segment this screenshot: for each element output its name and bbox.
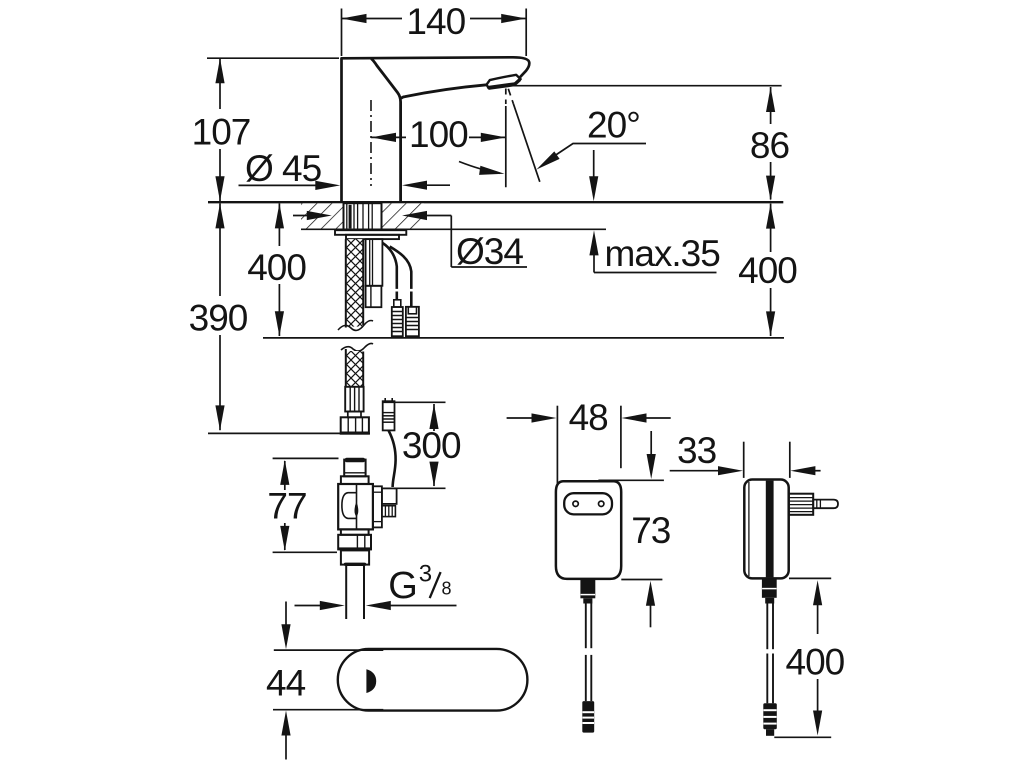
adapter front body: [556, 481, 621, 579]
20 degree slant line: [508, 89, 540, 182]
svg-text:73: 73: [631, 510, 670, 551]
dimension 400 right: [738, 204, 797, 337]
dimension 86: [750, 87, 789, 201]
faucet aerator spout tip: [487, 75, 521, 88]
sensor window mark: [366, 669, 376, 693]
G3/8 pipe tail: [346, 566, 364, 619]
mounting shank through deck: [344, 203, 382, 229]
valve bottom collar: [341, 529, 369, 534]
svg-text:44: 44: [266, 663, 306, 704]
300 cable to valve: [389, 431, 396, 487]
dimension G 3/8 thread: [295, 561, 457, 611]
20 degree angle annotation: [459, 105, 646, 175]
adapter euro socket face: [564, 493, 612, 514]
braided supply hose upper segment: [338, 239, 373, 330]
adapter front jack connector: [582, 701, 594, 733]
sensor cable A: [383, 243, 397, 300]
svg-text:33: 33: [677, 430, 716, 471]
cable A plug connector: [392, 300, 403, 336]
adapter side strain relief: [762, 578, 777, 603]
countertop line: [208, 201, 783, 203]
svg-text:Ø 45: Ø 45: [245, 148, 322, 189]
valve hex nut: [338, 535, 371, 550]
adapter side cable: [767, 604, 773, 704]
faucet body outline: [342, 57, 530, 202]
svg-text:107: 107: [192, 112, 251, 153]
valve inlet stub: [344, 458, 365, 477]
mounting flange washer: [335, 230, 406, 239]
dimension 300 cable length: [383, 402, 461, 488]
dimension 140 top width: [342, 1, 527, 56]
svg-text:300: 300: [402, 425, 461, 466]
svg-text:400: 400: [247, 247, 306, 288]
dimension 33 adapter depth: [670, 430, 821, 478]
dimension 77 valve height: [267, 458, 338, 552]
dimension 400 adapter cable: [774, 578, 844, 737]
adapter side seam line: [748, 482, 750, 576]
adapter side jack connector: [763, 703, 777, 736]
dimension 390: [189, 203, 370, 433]
svg-text:400: 400: [786, 642, 845, 683]
svg-text:Ø34: Ø34: [456, 231, 523, 272]
conduit end box: [366, 286, 382, 307]
faucet center axis line: [370, 100, 372, 186]
water stream reference line: [505, 89, 507, 188]
dimension 48 adapter width: [507, 397, 671, 484]
svg-text:3: 3: [419, 561, 432, 588]
spout height reference line: [513, 85, 782, 87]
deck hatching left: [301, 203, 343, 228]
dimension 73 adapter height: [598, 431, 670, 627]
svg-text:77: 77: [267, 486, 306, 527]
dimension 400 left: [247, 203, 306, 336]
dimension max.35: [589, 150, 720, 274]
deck bottom reference line: [301, 228, 606, 230]
cable B plug connector: [406, 307, 419, 336]
deck hatching right: [383, 203, 425, 228]
300 cable plug connector: [383, 398, 395, 430]
dimension 44 oval height: [266, 602, 383, 760]
hose end fitting: [345, 387, 363, 418]
valve body: [338, 484, 373, 529]
adapter front strain relief: [580, 579, 595, 603]
svg-text:max.35: max.35: [605, 233, 721, 274]
svg-text:20°: 20°: [587, 105, 640, 146]
plug pin (side): [813, 500, 838, 509]
valve cable port: [382, 488, 397, 504]
svg-text:G: G: [388, 565, 418, 607]
braided hose lower segment: [341, 343, 373, 386]
svg-text:390: 390: [189, 298, 248, 339]
dimension diameter 34: [293, 211, 527, 272]
euro plug base (side): [789, 494, 814, 515]
sensor cable B: [390, 247, 412, 307]
adapter side body: [744, 480, 788, 579]
dimension diameter 45: [239, 148, 451, 190]
valve top collar: [341, 476, 369, 484]
dimension 100 spout reach: [371, 114, 506, 155]
dimension 107 height: [192, 58, 339, 201]
oval base plate: [338, 649, 528, 711]
valve adjuster screw: [382, 506, 396, 517]
svg-text:400: 400: [738, 250, 797, 291]
svg-text:140: 140: [406, 1, 465, 42]
hose union nut: [341, 417, 369, 433]
valve lower block: [341, 550, 369, 566]
sensor cable conduit: [366, 239, 383, 286]
svg-text:48: 48: [569, 397, 608, 438]
svg-text:8: 8: [442, 579, 452, 599]
adapter front cable: [586, 604, 592, 702]
adapter side dark stripe: [766, 481, 774, 578]
svg-text:86: 86: [750, 125, 789, 166]
valve right flange: [373, 486, 382, 527]
svg-text:100: 100: [409, 114, 468, 155]
reference line 400mm below counter: [263, 337, 784, 339]
